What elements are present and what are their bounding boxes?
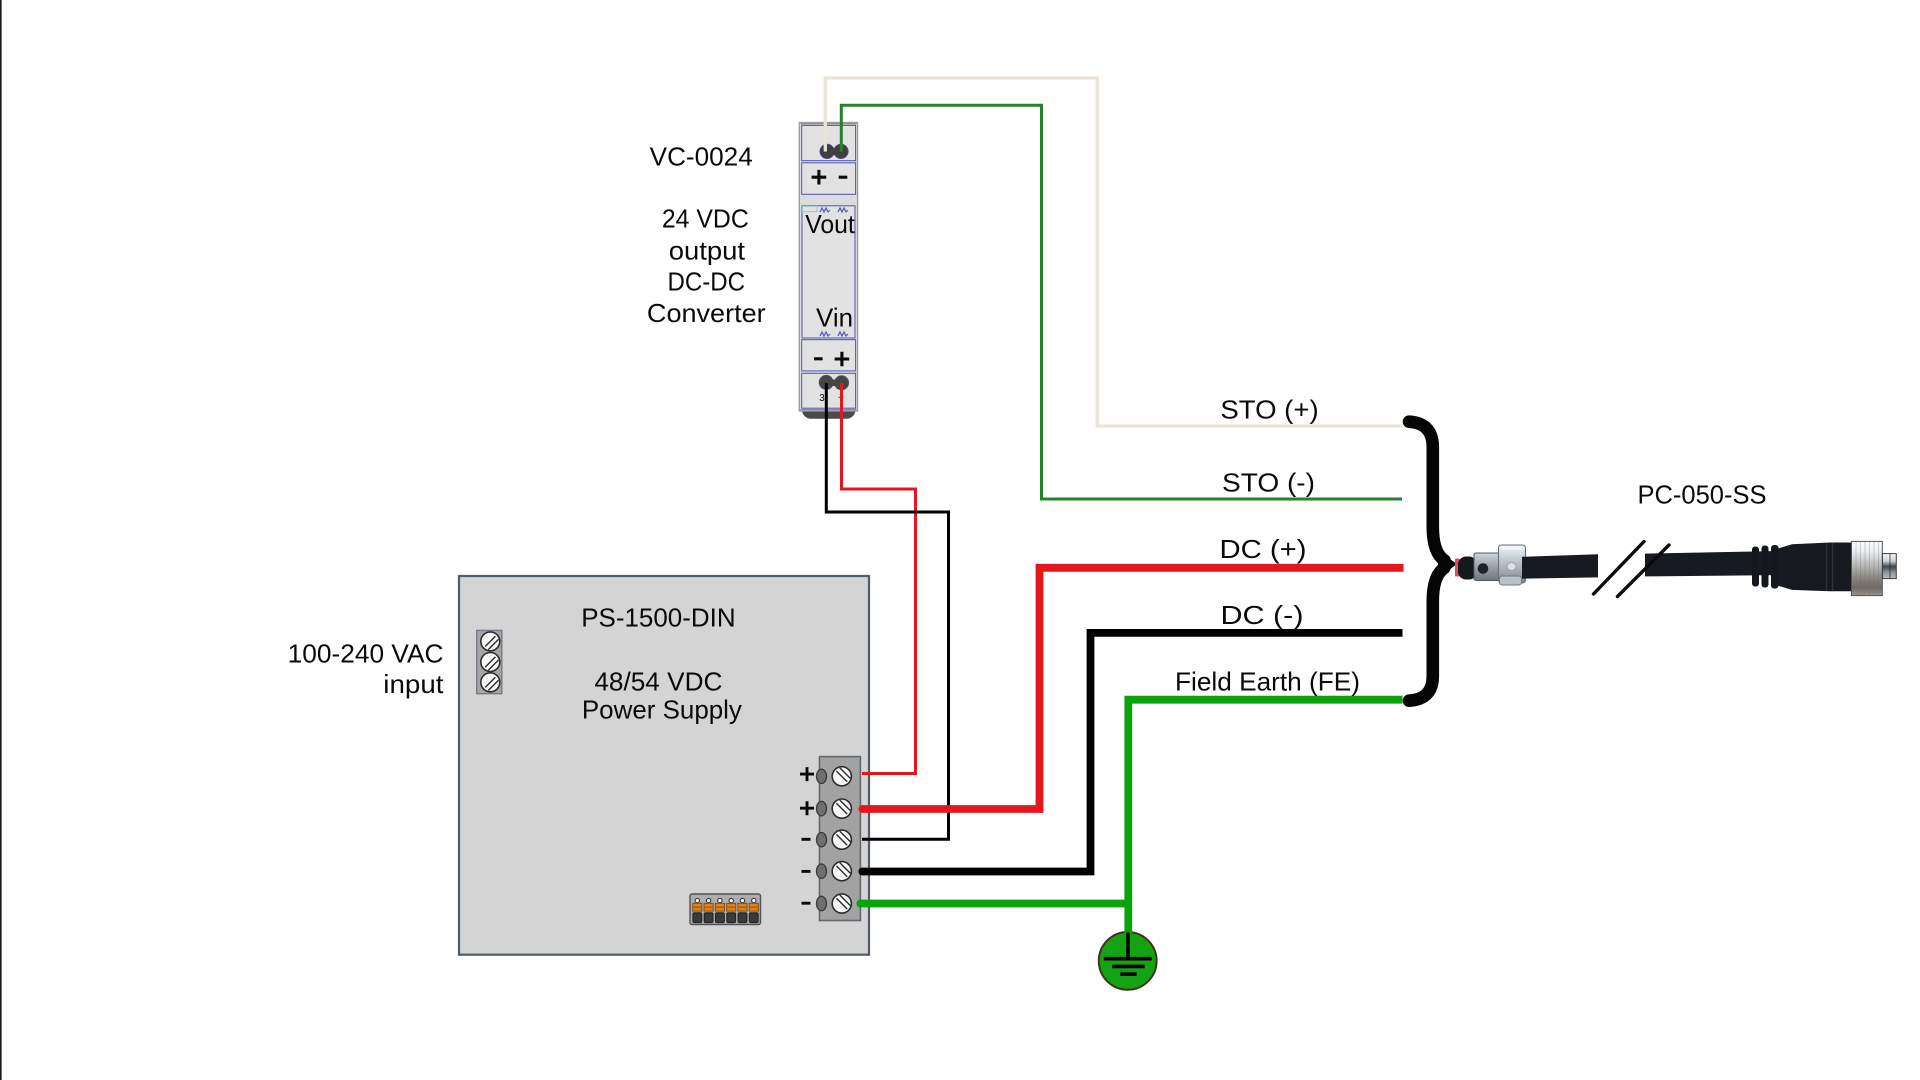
- connector molded body: [1778, 543, 1855, 592]
- svg-text:3: 3: [819, 393, 825, 404]
- blue marks upper: [820, 208, 830, 212]
- label + (terminal 1): [800, 767, 814, 781]
- left edge border line: [0, 0, 2, 1080]
- bottom terminal screws: [819, 375, 833, 389]
- break slash 1: [1594, 542, 1645, 595]
- panel - +: [802, 340, 856, 371]
- module body panel: [802, 206, 855, 338]
- lug clamp plate: [1499, 545, 1526, 583]
- svg-text:Field Earth (FE): Field Earth (FE): [1175, 666, 1360, 696]
- red band at lug: [1455, 559, 1460, 577]
- input screw 2: [481, 653, 500, 672]
- ground symbol (protective earth): [1099, 932, 1157, 990]
- output screw 5: [832, 894, 851, 913]
- wire entry bump 4: [817, 864, 827, 878]
- wire DC(-) thick black: [862, 633, 1403, 872]
- panel + -: [802, 163, 856, 195]
- inlet pole 3: [715, 898, 724, 922]
- output screw 4: [832, 862, 851, 881]
- boot ribs: [1752, 547, 1759, 587]
- wire entry bump 1: [817, 769, 827, 783]
- cable assembly PC-050-SS: [1455, 541, 1896, 596]
- svg-text:48/54 VDC: 48/54 VDC: [594, 666, 722, 696]
- input terminal block (3 screws): [477, 630, 502, 693]
- wire Field Earth vertical + run to brace: [1128, 700, 1402, 936]
- svg-text:STO (-): STO (-): [1222, 468, 1315, 498]
- label + (Vout): [812, 170, 827, 185]
- crimp barrel: [1458, 557, 1477, 580]
- svg-text:PC-050-SS: PC-050-SS: [1638, 479, 1767, 509]
- inlet pole 4: [727, 898, 736, 922]
- svg-text:Power Supply: Power Supply: [582, 695, 742, 725]
- inlet pole 2: [704, 898, 713, 922]
- wire entry bump 2: [817, 801, 827, 815]
- DC-DC converter VC-0024 module: [799, 123, 857, 419]
- body notch: [803, 206, 817, 211]
- svg-text:DC (+): DC (+): [1220, 534, 1307, 564]
- AC inlet connector (orange, 6-pole): [690, 894, 761, 925]
- ground symbol bars: [1104, 933, 1152, 975]
- label - (Vout): [839, 176, 848, 179]
- top terminal screws: [820, 144, 834, 158]
- label - (Vin): [814, 357, 823, 360]
- svg-text:input: input: [383, 669, 444, 699]
- label + (terminal 2): [800, 801, 814, 815]
- input screw 1: [481, 632, 500, 651]
- label - (terminal 5): [802, 902, 811, 905]
- bottom terminal panel: [802, 373, 856, 408]
- svg-text:DC-DC: DC-DC: [668, 267, 746, 297]
- wire Vin- thin black: [826, 383, 948, 839]
- label - (terminal 4): [802, 870, 811, 873]
- break slash 2: [1618, 545, 1670, 597]
- label - (terminal 3): [802, 838, 811, 841]
- curly brace: [1409, 422, 1445, 561]
- lug hole: [1478, 563, 1489, 574]
- svg-text:VC-0024: VC-0024: [650, 142, 753, 172]
- blue marks lower: [820, 332, 830, 336]
- output terminal block (5 screws): [817, 757, 861, 921]
- svg-text:100-240 VAC: 100-240 VAC: [288, 638, 444, 668]
- wire Vin+ thin red: [842, 383, 916, 774]
- svg-text:Vout: Vout: [805, 209, 855, 239]
- knurled metal ring: [1852, 541, 1883, 595]
- inlet pole 1: [693, 898, 702, 922]
- wire entry bump 5: [817, 896, 827, 910]
- top terminal panel: [802, 125, 856, 160]
- svg-text:Vin: Vin: [816, 303, 853, 333]
- output screw 1: [832, 767, 851, 786]
- svg-text:DC (-): DC (-): [1221, 600, 1304, 630]
- svg-text:24 VDC: 24 VDC: [662, 204, 749, 234]
- inlet pole 5: [738, 898, 747, 922]
- module shadow foot: [802, 400, 856, 419]
- module frame: [799, 123, 857, 412]
- svg-text:output: output: [669, 236, 746, 266]
- wire STO(+) from Vout+ (white): [825, 78, 1403, 426]
- wire entry bump 3: [817, 833, 827, 847]
- label + (Vin): [835, 352, 850, 367]
- svg-text:Converter: Converter: [647, 298, 766, 328]
- wire Field Earth thick green horizontal from terminal 5: [860, 900, 1128, 908]
- svg-text:PS-1500-DIN: PS-1500-DIN: [581, 603, 735, 633]
- wire STO(-) from Vout- (dark green): [841, 105, 1402, 499]
- power supply PS-1500-DIN box: [459, 576, 869, 955]
- crimp lug metal block: [1474, 553, 1501, 581]
- output screw 2: [832, 799, 851, 818]
- inlet pole 6: [749, 898, 758, 922]
- wire DC(+) thick red: [862, 568, 1404, 809]
- connector tip: [1883, 554, 1897, 579]
- svg-text:STO (+): STO (+): [1220, 395, 1318, 425]
- cable left segment: [1522, 554, 1598, 578]
- input screw 3: [481, 673, 500, 692]
- cable right segment: [1645, 551, 1785, 577]
- output screw 3: [832, 830, 851, 849]
